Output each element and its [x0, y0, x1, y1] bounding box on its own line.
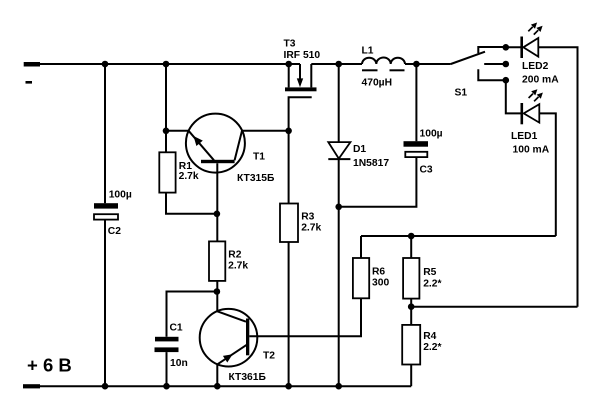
svg-text:C2: C2: [108, 226, 121, 237]
svg-text:200 mA: 200 mA: [522, 75, 559, 86]
svg-text:C3: C3: [420, 165, 433, 176]
svg-text:T2: T2: [263, 351, 275, 362]
svg-text:10n: 10n: [170, 358, 188, 369]
svg-text:T3: T3: [284, 39, 296, 50]
svg-text:КТ361Б: КТ361Б: [229, 372, 267, 383]
svg-text:T1: T1: [253, 152, 265, 163]
svg-text:R4: R4: [423, 331, 436, 342]
svg-text:LED1: LED1: [511, 131, 538, 142]
svg-text:2.7k: 2.7k: [301, 223, 321, 234]
svg-text:100 mA: 100 mA: [513, 145, 550, 156]
svg-text:470µH: 470µH: [362, 78, 393, 89]
svg-text:1N5817: 1N5817: [353, 158, 389, 169]
svg-text:R3: R3: [301, 212, 314, 223]
svg-text:100µ: 100µ: [109, 190, 132, 201]
svg-text:2.2*: 2.2*: [423, 342, 441, 353]
svg-text:R6: R6: [372, 267, 385, 278]
svg-text:IRF 510: IRF 510: [284, 50, 321, 61]
svg-text:КТ315Б: КТ315Б: [237, 173, 275, 184]
svg-text:C1: C1: [170, 322, 183, 333]
svg-text:L1: L1: [362, 46, 374, 57]
svg-text:LED2: LED2: [522, 61, 549, 72]
svg-text:100µ: 100µ: [420, 128, 443, 139]
svg-text:2.2*: 2.2*: [423, 278, 441, 289]
svg-text:2.7k: 2.7k: [228, 261, 248, 272]
svg-text:2.7k: 2.7k: [179, 171, 199, 182]
svg-text:300: 300: [372, 278, 389, 289]
svg-text:S1: S1: [455, 88, 468, 99]
svg-text:R2: R2: [228, 249, 241, 260]
svg-text:R5: R5: [423, 267, 436, 278]
svg-text:+ 6 B: + 6 B: [27, 355, 72, 376]
svg-text:D1: D1: [353, 144, 366, 155]
